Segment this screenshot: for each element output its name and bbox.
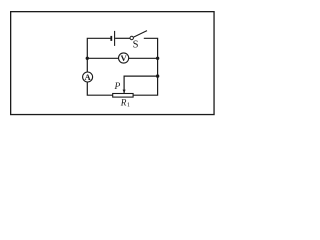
border frame (11, 12, 214, 115)
wiper arrowhead P (123, 90, 126, 94)
svg-text:1: 1 (127, 102, 130, 109)
svg-text:S: S (133, 40, 139, 51)
svg-text:A: A (84, 72, 91, 82)
battery cell: short thick negative plate (110, 36, 112, 41)
voltmeter U: circle (119, 53, 129, 63)
svg-text:P: P (114, 82, 121, 92)
switch S pivot circle (130, 36, 133, 39)
wire top-left + left rail + bottom-left (87, 38, 112, 95)
wire battery to switch (115, 37, 130, 39)
battery cell: long thin positive plate (114, 31, 116, 46)
svg-text:R: R (120, 98, 127, 108)
wire switch to top-right corner + right rail (133, 38, 158, 95)
middle wire (voltmeter branch) (87, 57, 157, 59)
junction node: right rail / voltmeter wire (156, 57, 159, 60)
rheostat R1 body (113, 94, 133, 98)
slider wire: horizontal from wiper to right rail (124, 76, 158, 93)
ammeter: circle on left rail (83, 72, 93, 82)
svg-text:V: V (120, 53, 127, 63)
junction node: right rail / wiper wire (156, 74, 159, 77)
switch S lever (open) (133, 31, 147, 38)
junction node: left rail / voltmeter wire (86, 57, 89, 60)
